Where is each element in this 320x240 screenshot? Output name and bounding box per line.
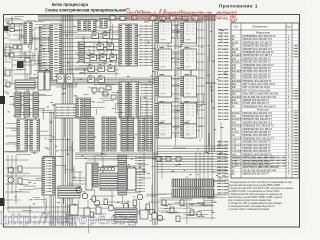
svg-text:Схема электрическая принципиал: Схема электрическая принципиальная bbox=[45, 8, 126, 13]
svg-text:Блок процессора: Блок процессора bbox=[52, 2, 89, 7]
